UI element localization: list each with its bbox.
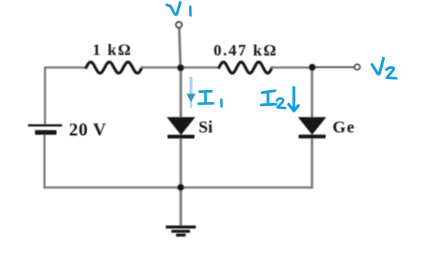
junction node V1 dot [177, 64, 184, 71]
annotation I1 arrowhead [186, 94, 195, 103]
annotation I2 subscript 2 [277, 98, 285, 108]
diode D2 Ge triangle [299, 118, 325, 134]
annotation I1 arrow shaft [190, 78, 193, 95]
diode D1 Si cathode bar [168, 135, 195, 139]
junction node ground dot [177, 184, 184, 191]
wire top rail right segment [271, 66, 313, 68]
diode D2 Ge cathode bar [299, 135, 326, 139]
diode D1 Si triangle [168, 118, 194, 135]
wire Si branch lower [180, 138, 183, 189]
annotation I2 letter I [261, 91, 276, 105]
svg-text:20 V: 20 V [69, 120, 107, 140]
terminal V1 open circle [176, 22, 182, 28]
annotation I1 letter I [199, 91, 213, 103]
svg-text:Ge: Ge [333, 118, 356, 137]
svg-text:0.47 kΩ: 0.47 kΩ [214, 43, 278, 60]
junction node V2 dot [309, 64, 316, 71]
resistor R1 1 kOhm zigzag [86, 62, 142, 73]
terminal V2 open circle [355, 64, 360, 69]
annotation I1 arrow faint tail [190, 100, 193, 107]
battery E 20V short thick plate [35, 130, 57, 135]
wire left rail lower [43, 135, 45, 189]
wire Si branch upper [180, 68, 183, 120]
wire top rail left segment [45, 66, 87, 68]
ground symbol [166, 227, 196, 235]
battery E 20V long plate [28, 124, 62, 126]
annotation I2 arrow shaft [292, 88, 295, 110]
annotation V1 handwritten V [167, 2, 180, 14]
wire Ge branch lower [311, 138, 313, 189]
svg-text:1 kΩ: 1 kΩ [93, 42, 133, 59]
wire bottom rail [44, 186, 313, 188]
wire ground stub [180, 188, 183, 227]
annotation I1 subscript 1 stroke [220, 99, 223, 106]
wire V1 stub [179, 28, 180, 68]
annotation V2 handwritten V [372, 58, 384, 74]
annotation I2 arrowhead chevron [289, 104, 299, 111]
svg-text:Si: Si [199, 118, 213, 137]
wire V2 lead [313, 66, 354, 68]
annotation V1 subscript 1 stroke [189, 7, 192, 16]
wire Ge branch upper [311, 68, 313, 120]
annotation V2 subscript 2 [386, 68, 396, 79]
wire top rail middle segment [141, 66, 220, 68]
resistor R2 0.47 kOhm zigzag [219, 62, 272, 73]
wire left rail [44, 67, 46, 125]
